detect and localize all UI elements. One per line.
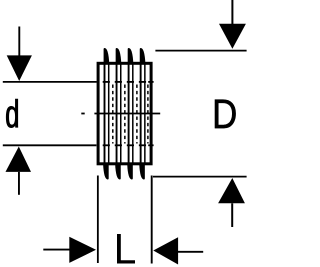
thread crest line 2 (116, 62, 118, 165)
d line tick bottom 4 (139, 144, 146, 146)
thread pitch 4 (139, 48, 148, 179)
hidden core line 2 (dashed) (124, 85, 126, 144)
thread crest fin top 3 (128, 48, 134, 63)
d line tick top 2 (115, 81, 122, 83)
dimension arrow D top (head) (219, 24, 246, 49)
thread crest line 3 (128, 62, 130, 165)
dimension line d top (3, 81, 97, 83)
thread pitch 1 (103, 48, 113, 179)
dimension line D top (155, 50, 246, 52)
dimension arrow d bottom (tail) (18, 172, 20, 195)
d line tick top 4 (139, 81, 146, 83)
thread root line 1 (108, 65, 110, 164)
dimension arrow D bottom (head) (218, 178, 245, 203)
dimension arrow d top (tail) (18, 27, 20, 57)
thread pitch 3 (127, 48, 137, 179)
hidden core line 4 (dashed) (147, 85, 149, 144)
thread crest fin bottom 1 (103, 164, 109, 179)
thread crest fin bottom 3 (127, 164, 133, 179)
fitting body outline (98, 63, 151, 164)
label d (6, 99, 17, 127)
thread root line 3 (132, 65, 134, 164)
thread crest fin bottom 4 (139, 164, 145, 179)
d line tick at right edge bottom (148, 144, 153, 146)
thread root line 4 (144, 65, 146, 164)
dimension arrow L right (tail) (178, 251, 203, 253)
dimension line d bottom (3, 144, 97, 146)
dimension arrow d top (head) (7, 55, 32, 81)
extension line L right (151, 176, 153, 264)
d line tick bottom 2 (115, 144, 122, 146)
dimension arrow L right (head) (153, 237, 178, 264)
dimension line D bottom (153, 176, 247, 178)
hidden core line 3 (dashed) (136, 85, 138, 144)
thread crest line 4 (140, 62, 142, 165)
thread root line 2 (120, 65, 122, 164)
extension line L left (97, 176, 99, 264)
dimension arrow D bottom (tail) (231, 203, 233, 227)
dimension arrow D top (tail) (231, 0, 233, 24)
d line tick top 3 (127, 81, 134, 83)
thread crest line 1 (104, 62, 106, 165)
centerline (81, 113, 84, 115)
label L (117, 234, 135, 264)
dimension arrow L left (tail) (43, 249, 69, 251)
thread crest fin top 4 (140, 48, 146, 63)
dimension arrow d bottom (head) (6, 147, 32, 172)
d line tick top 1 (103, 81, 110, 83)
d line tick bottom 1 (103, 144, 110, 146)
thread crest fin top 1 (104, 48, 110, 63)
thread pitch 2 (115, 48, 125, 179)
dimension arrow L left (head) (69, 237, 96, 263)
d line tick at right edge top (148, 81, 153, 83)
thread crest fin bottom 2 (115, 164, 121, 179)
thread crest fin top 2 (116, 48, 122, 63)
hidden core line 1 (dashed) (112, 85, 114, 144)
label D (215, 100, 236, 128)
d line tick bottom 3 (127, 144, 134, 146)
